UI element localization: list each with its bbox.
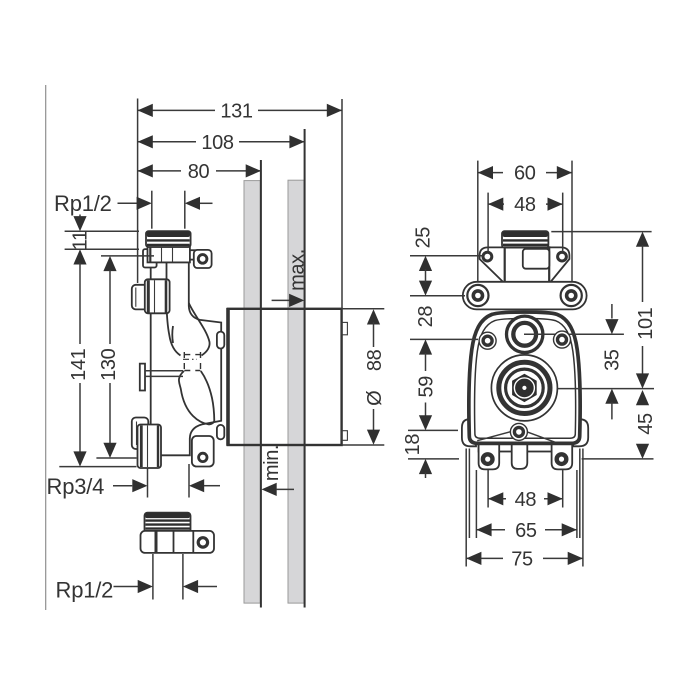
dim 25 xyxy=(410,227,483,296)
screw boss upper right xyxy=(554,331,571,348)
svg-text:25: 25 xyxy=(412,227,434,249)
center valve xyxy=(491,355,557,421)
dim 59 xyxy=(415,339,437,430)
label max. xyxy=(272,249,309,307)
extension line x=304.7 (108 dim / max wall face) xyxy=(304,129,306,608)
top eyelet hole xyxy=(198,255,207,264)
left foot xyxy=(479,444,500,470)
dim 35 xyxy=(602,304,624,419)
svg-text:48: 48 xyxy=(515,489,537,511)
dim 141 xyxy=(59,249,136,466)
dim 65 xyxy=(476,520,577,542)
dim 60 xyxy=(478,161,572,281)
wall layer bar 2 xyxy=(288,180,304,603)
svg-text:65: 65 xyxy=(515,520,537,542)
label Rp1/2 bottom xyxy=(56,554,218,602)
svg-text:Rp3/4: Rp3/4 xyxy=(47,474,105,499)
dim 131 xyxy=(138,99,342,309)
svg-text:75: 75 xyxy=(511,548,533,570)
bottom eyelet hole xyxy=(199,453,207,461)
svg-text:Rp1/2: Rp1/2 xyxy=(56,577,114,602)
svg-text:80: 80 xyxy=(188,161,210,183)
flush-mount box (side view) xyxy=(228,308,384,446)
svg-text:60: 60 xyxy=(514,163,536,185)
extension line x=261 (80 dim / min wall face) xyxy=(260,160,262,608)
dim 48 top xyxy=(488,193,563,252)
dim 75 xyxy=(466,548,583,570)
svg-text:11: 11 xyxy=(70,230,92,250)
bottom outlet boss xyxy=(192,436,214,467)
svg-text:45: 45 xyxy=(635,413,657,435)
flange slot upper xyxy=(217,332,224,349)
upper mounting bracket xyxy=(480,247,570,283)
svg-text:18: 18 xyxy=(402,434,424,456)
service stop block xyxy=(523,249,550,269)
hidden waist (dashed) xyxy=(184,352,200,373)
neck and belly outline xyxy=(167,263,181,356)
top arm xyxy=(176,250,196,259)
dim 48 bottom xyxy=(488,489,563,511)
diagonal parting lines xyxy=(477,432,510,441)
port centerline dash-dot xyxy=(183,358,197,360)
bottom extension lines xyxy=(466,449,583,567)
dim 45 xyxy=(582,390,657,459)
svg-text:108: 108 xyxy=(201,132,233,154)
center valve leader xyxy=(552,388,654,390)
side port cap plate xyxy=(140,364,145,391)
port leader line xyxy=(524,333,624,335)
screw boss upper left xyxy=(479,332,496,349)
top port xyxy=(507,316,543,352)
svg-text:59: 59 xyxy=(415,376,437,398)
front thread cap xyxy=(502,231,548,248)
top thread cap xyxy=(146,231,191,247)
label min. xyxy=(261,445,294,496)
top eyelet pad xyxy=(194,250,212,268)
page margin line xyxy=(45,85,47,610)
screw boss lower xyxy=(510,423,527,440)
svg-text:48: 48 xyxy=(514,194,536,216)
main body outer xyxy=(469,312,580,443)
lower inlet coupling cap xyxy=(132,418,149,450)
svg-text:141: 141 xyxy=(68,348,90,380)
dim 11 xyxy=(65,215,139,251)
dim diameter 88 xyxy=(364,309,386,445)
label Rp1/2 top xyxy=(54,191,213,229)
lower inlet coupling nut xyxy=(138,425,162,469)
main column xyxy=(151,262,222,455)
svg-text:min.: min. xyxy=(261,445,283,481)
svg-text:max.: max. xyxy=(286,249,308,291)
lower wing right xyxy=(573,419,588,446)
upper inlet coupling cap xyxy=(132,285,148,310)
foot screw right xyxy=(557,454,567,464)
dim 101 xyxy=(551,232,657,389)
upper inlet coupling nut xyxy=(145,279,170,313)
valve body side view xyxy=(132,231,224,468)
dim 80 xyxy=(138,161,261,183)
spare union fitting xyxy=(141,513,215,553)
feet bar xyxy=(479,444,571,452)
wing bar xyxy=(463,282,587,310)
dim 108 xyxy=(138,132,305,154)
foot screw left xyxy=(483,454,493,464)
center tab xyxy=(512,444,528,469)
dim 130 xyxy=(96,256,154,458)
right foot xyxy=(552,444,573,470)
svg-text:130: 130 xyxy=(98,348,120,380)
dim 18 xyxy=(402,430,459,478)
label Rp3/4 xyxy=(47,464,221,499)
upper housing left flange xyxy=(143,249,157,267)
svg-text:Rp1/2: Rp1/2 xyxy=(54,191,112,216)
svg-text:35: 35 xyxy=(602,349,624,371)
wall layer bar 1 xyxy=(244,181,260,603)
svg-text:101: 101 xyxy=(635,307,657,339)
svg-text:Ø 88: Ø 88 xyxy=(364,349,386,405)
lower wing left xyxy=(462,419,476,446)
main body inner line xyxy=(475,319,576,439)
svg-text:28: 28 xyxy=(415,306,437,328)
dim 28 xyxy=(410,306,478,340)
upper housing xyxy=(148,247,190,263)
svg-text:131: 131 xyxy=(220,100,252,122)
flange slot lower xyxy=(217,425,224,439)
